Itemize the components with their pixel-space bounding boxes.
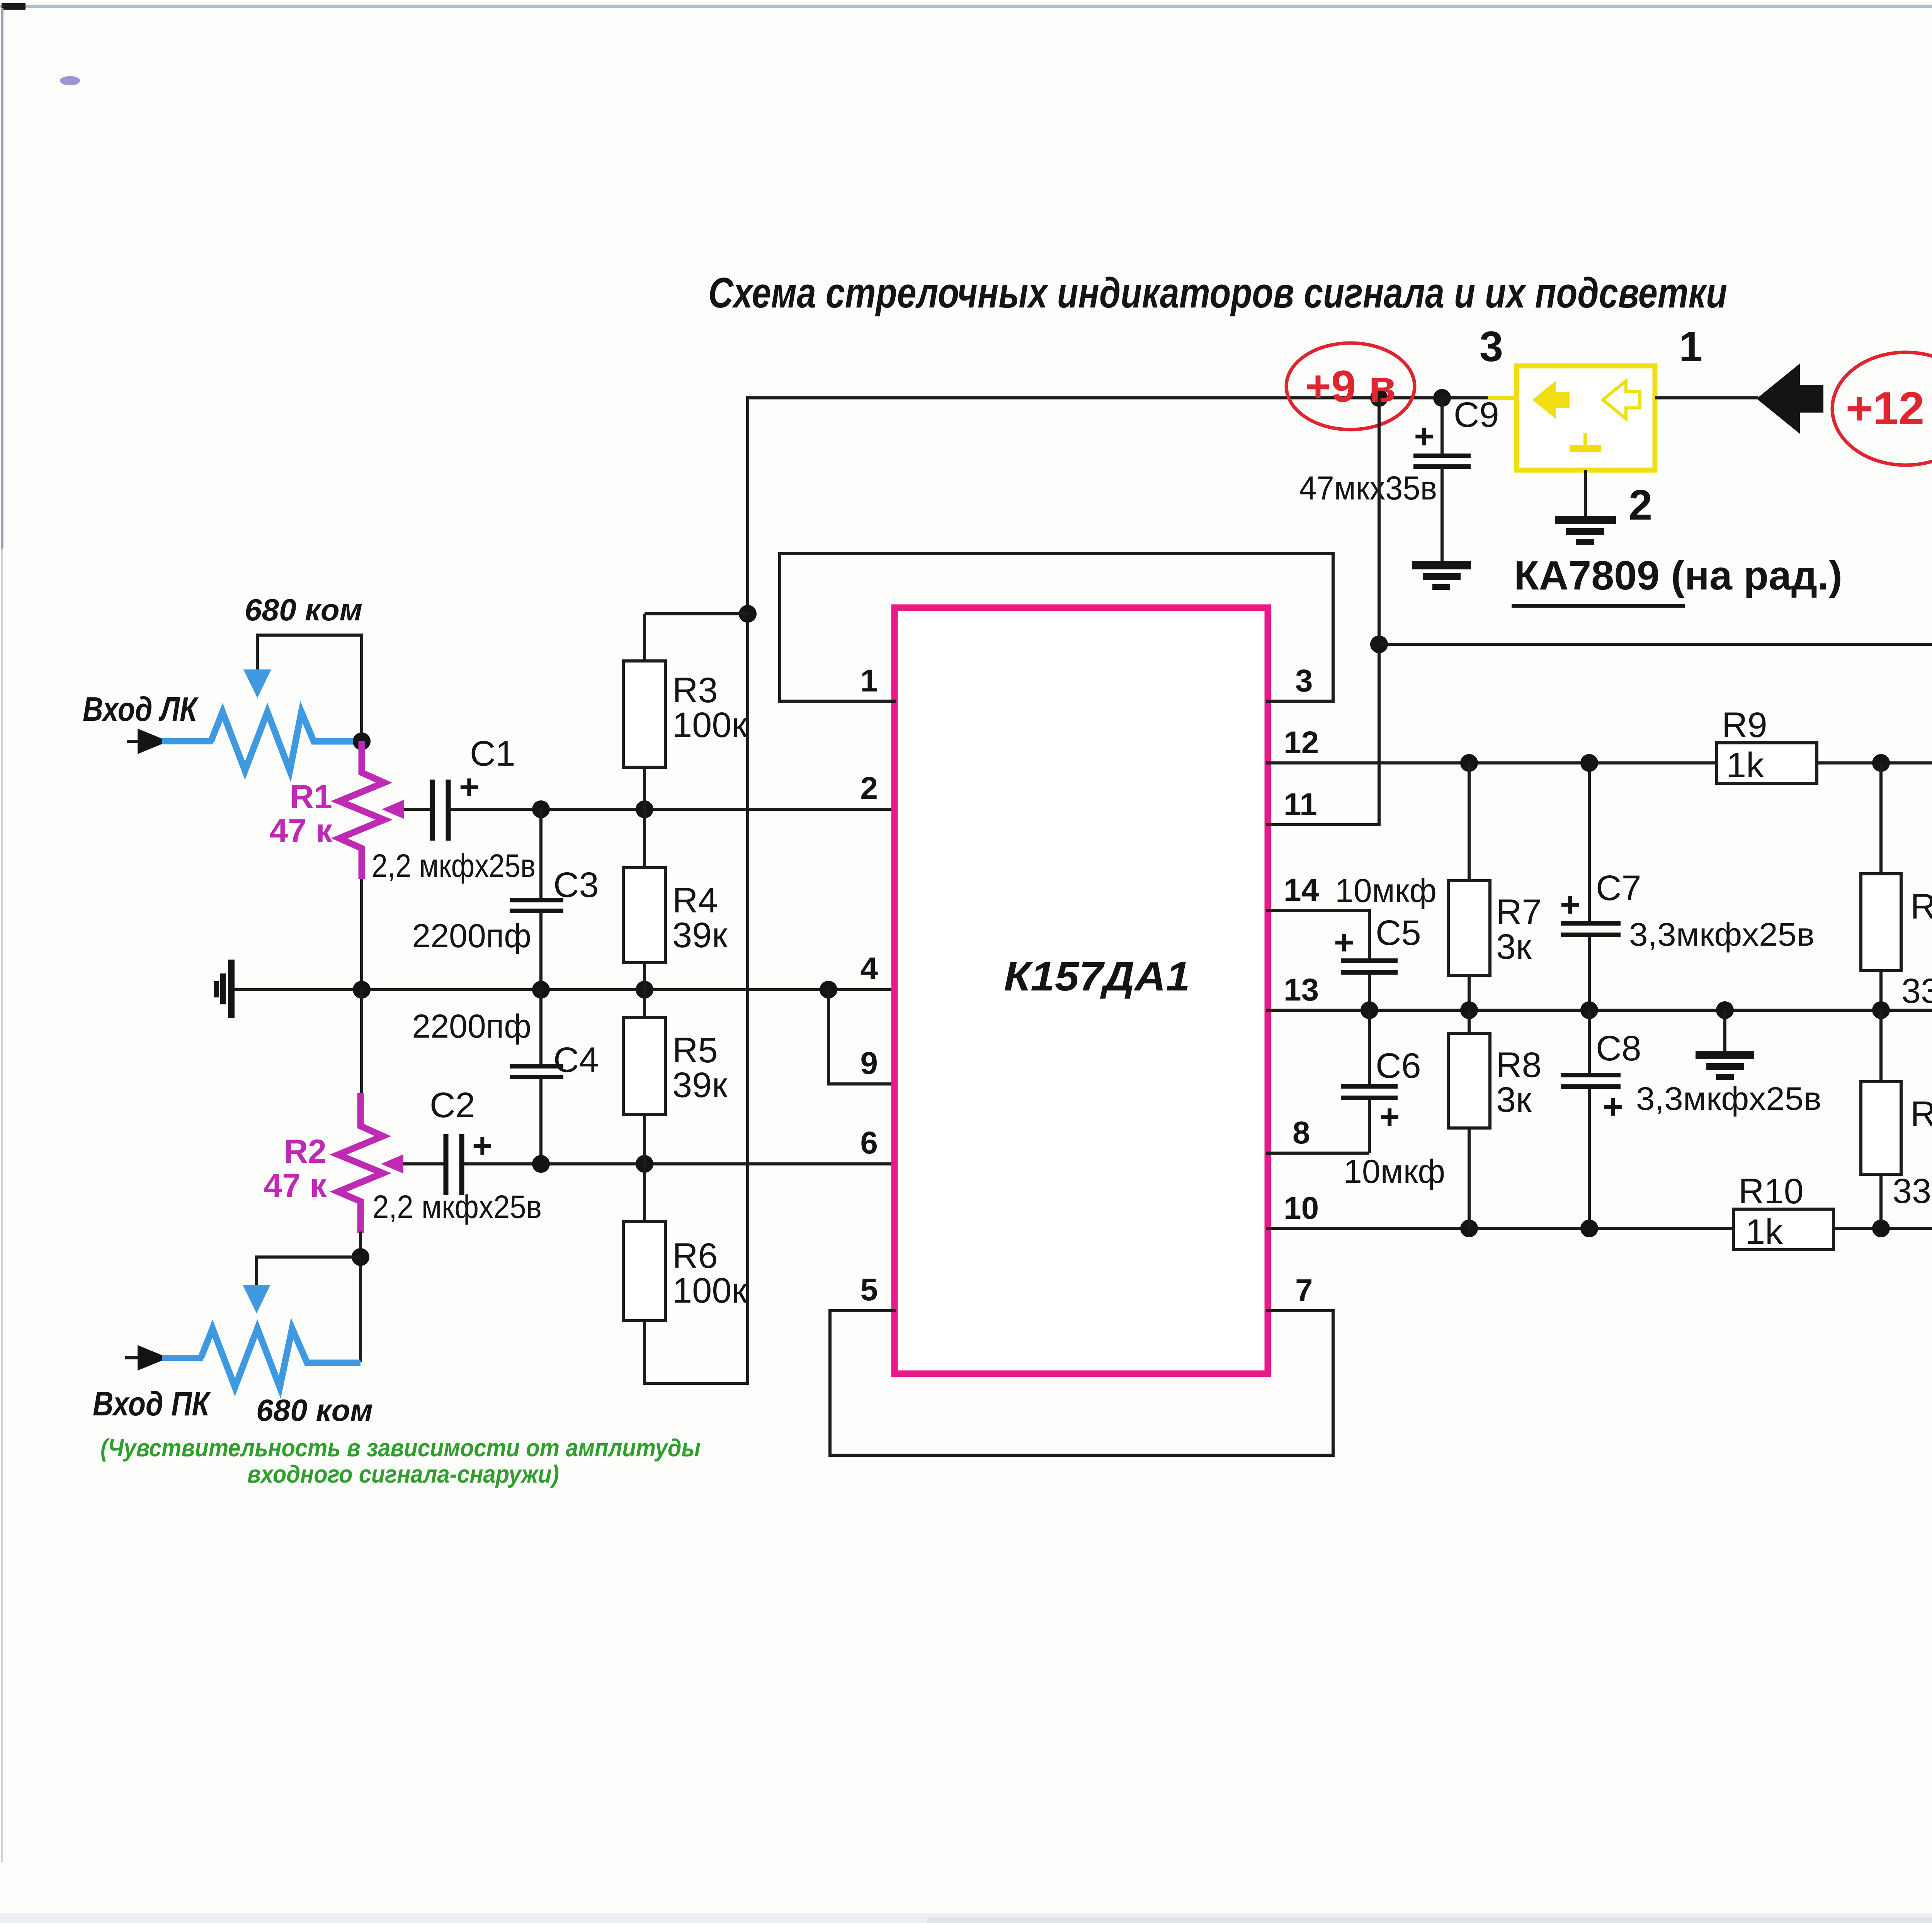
svg-text:+: +: [1603, 1087, 1623, 1126]
IC U1 K157DA1 body: [895, 608, 1268, 1374]
node C5 bottom: [1361, 1001, 1378, 1019]
node C4 bottom: [532, 1155, 550, 1173]
svg-text:39к: 39к: [672, 916, 728, 955]
svg-text:C8: C8: [1596, 1029, 1641, 1068]
ground on pin 13 row: [1723, 1010, 1726, 1052]
wire yellow stub to regulator pin 3: [1488, 396, 1517, 400]
ground below regulator: [1555, 516, 1616, 524]
capacitor C8: [1588, 1010, 1591, 1075]
svg-text:2: 2: [1629, 481, 1652, 529]
svg-text:10: 10: [1284, 1191, 1319, 1226]
svg-text:47 к: 47 к: [264, 1167, 327, 1204]
svg-text:+: +: [459, 768, 480, 807]
svg-text:330ом: 330ом: [1893, 1172, 1932, 1211]
node R8 bottom: [1460, 1220, 1478, 1237]
wire pin 6 row: [462, 1162, 896, 1165]
node input column ground: [353, 981, 371, 999]
wire ground row pin 4: [234, 988, 896, 991]
wire pin 10 row: [1266, 1227, 1932, 1230]
svg-text:Схема стрелочных индикаторов с: Схема стрелочных индикаторов сигнала и и…: [708, 269, 1727, 317]
svg-text:10мкф: 10мкф: [1344, 1153, 1445, 1190]
svg-text:C3: C3: [553, 865, 599, 905]
wire pin 8 stub: [1266, 1152, 1369, 1155]
wire R2 bottom: [359, 1232, 362, 1362]
pot LK adjust arrow: [243, 669, 271, 698]
node PK input: [352, 1248, 369, 1266]
svg-text:R2: R2: [284, 1133, 327, 1170]
node C3 top: [532, 800, 550, 818]
svg-text:12: 12: [1284, 725, 1319, 760]
wire R3 top stub: [645, 612, 748, 615]
potentiometer 680k PK blue zigzag: [201, 1328, 361, 1387]
node C7 top: [1580, 754, 1598, 772]
svg-text:R9: R9: [1722, 705, 1767, 745]
wire pin 9 branch: [828, 990, 896, 1084]
regulator yellow outlined arrow: [1603, 381, 1640, 419]
svg-text:1k: 1k: [1745, 1212, 1783, 1252]
svg-text:3к: 3к: [1496, 1080, 1532, 1119]
node wire-1670 junction: [1370, 635, 1388, 653]
svg-text:+: +: [1414, 417, 1434, 456]
svg-text:C9: C9: [1454, 395, 1499, 435]
svg-text:3,3мкфх25в: 3,3мкфх25в: [1636, 1080, 1821, 1117]
node ground stub pin13 row: [1716, 1001, 1734, 1019]
svg-text:К157ДА1: К157ДА1: [1004, 954, 1190, 999]
wire pin 2 row: [448, 808, 896, 811]
wire R11 stubs: [1879, 763, 1883, 874]
capacitor C2: [444, 1134, 449, 1195]
svg-text:3,3мкфх25в: 3,3мкфх25в: [1629, 916, 1815, 953]
wire regulator pin1 to +12 connector: [1655, 396, 1758, 399]
node C9 top junction: [1433, 389, 1451, 407]
wire pin 11 stub: [1266, 398, 1379, 825]
node R5 R6 junction: [636, 1155, 653, 1173]
svg-text:680 ком: 680 ком: [245, 593, 362, 627]
svg-text:2: 2: [860, 771, 878, 806]
svg-text:3: 3: [1480, 323, 1503, 370]
svg-text:C6: C6: [1376, 1046, 1421, 1086]
capacitor C9: [1440, 398, 1444, 454]
svg-text:R12: R12: [1910, 1094, 1932, 1134]
resistor R3: [643, 614, 646, 661]
svg-text:2,2 мкфх25в: 2,2 мкфх25в: [372, 1189, 542, 1225]
svg-text:3к: 3к: [1496, 927, 1532, 967]
svg-text:3: 3: [1295, 663, 1313, 698]
svg-text:R6: R6: [672, 1236, 718, 1276]
capacitor C3: [539, 809, 543, 900]
R2 wiper arrow: [390, 1162, 444, 1165]
resistor R7: [1448, 881, 1490, 975]
wire R7 stubs: [1468, 763, 1471, 881]
node LK input: [353, 732, 371, 750]
svg-text:+: +: [1334, 923, 1354, 962]
svg-text:R7: R7: [1496, 892, 1542, 932]
wire input PK with arrow: [125, 1356, 162, 1359]
node pin9 branch: [820, 981, 837, 999]
wire 1670 row to led rail: [1379, 643, 1932, 646]
svg-text:4: 4: [860, 951, 878, 986]
capacitor C5: [1341, 958, 1398, 963]
svg-text:680 ком: 680 ком: [256, 1393, 373, 1427]
svg-text:R1: R1: [290, 778, 332, 815]
svg-text:2200пф: 2200пф: [412, 917, 531, 955]
svg-text:+: +: [472, 1126, 493, 1165]
node R4 top: [636, 800, 653, 818]
wire bias chain vertical: [645, 398, 748, 1383]
wire pin 12 row: [1266, 761, 1932, 764]
+12v connector arrow: [1757, 364, 1823, 434]
capacitor C6: [1368, 1010, 1371, 1086]
scan border top: [0, 5, 1932, 8]
svg-text:C7: C7: [1596, 868, 1641, 908]
resistor R4: [643, 809, 646, 868]
resistor R6: [643, 1164, 646, 1221]
node C7 bottom: [1580, 1001, 1598, 1019]
regulator gnd pin symbol: [1583, 433, 1587, 446]
resistor R5: [643, 990, 646, 1018]
resistor R10: [1733, 1209, 1833, 1250]
wire pin 13 row: [1266, 1009, 1932, 1012]
wire R8 stubs: [1468, 1010, 1471, 1033]
resistor R8: [1448, 1033, 1490, 1128]
svg-text:C4: C4: [553, 1040, 599, 1080]
+12 в red ellipse label: [1832, 352, 1932, 465]
svg-text:R4: R4: [672, 881, 718, 920]
wire pins 1-3 top bracket: [780, 554, 1333, 701]
node R11 bottom: [1872, 1001, 1890, 1019]
wire input LK with arrow: [127, 740, 162, 743]
wire pins 5-7 bottom bracket: [830, 1311, 1333, 1455]
pot PK top bracket wire: [257, 1257, 361, 1287]
svg-text:КА7809 (на рад.): КА7809 (на рад.): [1514, 553, 1842, 598]
svg-text:входного сигнала-снаружи): входного сигнала-снаружи): [247, 1460, 559, 1488]
svg-text:100к: 100к: [672, 1271, 747, 1310]
svg-text:7: 7: [1295, 1273, 1313, 1308]
node R7 top: [1460, 754, 1478, 772]
potentiometer R2 47k magenta: [338, 1093, 383, 1233]
wire regulator pin 2 to ground: [1584, 470, 1587, 516]
svg-text:1: 1: [1679, 323, 1702, 370]
regulator U1 KA7809 yellow box: [1517, 366, 1655, 470]
svg-text:9: 9: [860, 1046, 878, 1081]
svg-text:39к: 39к: [672, 1065, 728, 1105]
svg-text:10мкф: 10мкф: [1335, 872, 1437, 909]
svg-text:+: +: [1379, 1098, 1400, 1136]
regulator yellow filled arrow: [1532, 381, 1570, 419]
svg-text:100к: 100к: [672, 705, 747, 745]
node +9v junction: [1370, 389, 1388, 407]
svg-text:47мкх35в: 47мкх35в: [1299, 470, 1437, 507]
capacitor C7: [1588, 763, 1591, 923]
pot LK top bracket wire: [257, 635, 362, 741]
svg-text:C1: C1: [470, 734, 515, 773]
node R11 top: [1872, 754, 1890, 772]
resistor R11: [1861, 874, 1901, 971]
node R7 bottom: [1460, 1001, 1478, 1019]
svg-text:2,2 мкфх25в: 2,2 мкфх25в: [372, 848, 536, 884]
ground symbol left: [228, 960, 235, 1018]
potentiometer 680k LK blue zigzag: [211, 712, 362, 771]
svg-text:R3: R3: [672, 671, 718, 710]
node R12 bottom: [1872, 1220, 1890, 1237]
potentiometer R1 47k magenta: [339, 741, 384, 879]
svg-text:R11: R11: [1910, 887, 1932, 926]
svg-text:6: 6: [860, 1125, 878, 1160]
svg-text:14: 14: [1284, 873, 1319, 908]
resistor R9: [1717, 743, 1817, 783]
svg-text:C2: C2: [430, 1086, 475, 1125]
scan ink speck: [60, 76, 80, 85]
svg-text:330ом: 330ом: [1901, 972, 1932, 1011]
svg-text:C5: C5: [1376, 913, 1421, 953]
node R3 top junction: [739, 605, 757, 623]
capacitor C4: [539, 990, 543, 1066]
scan border bottom: [0, 1913, 1932, 1923]
svg-text:+9 в: +9 в: [1305, 361, 1396, 411]
svg-text:Вход ПК: Вход ПК: [93, 1384, 211, 1423]
ground below C9: [1412, 561, 1471, 569]
wire R12 stubs: [1879, 1010, 1883, 1082]
svg-text:47 к: 47 к: [269, 812, 333, 849]
R1 wiper arrow: [390, 808, 430, 811]
svg-text:8: 8: [1293, 1115, 1310, 1150]
svg-text:Вход ЛК: Вход ЛК: [83, 690, 199, 728]
svg-text:(Чувствительность в зависимост: (Чувствительность в зависимости от ампли…: [100, 1434, 701, 1462]
svg-text:R10: R10: [1738, 1172, 1804, 1211]
node C8 bottom: [1580, 1220, 1598, 1237]
pot PK adjust arrow: [243, 1285, 270, 1313]
wire pin 14 stub: [1266, 911, 1369, 961]
svg-text:R5: R5: [672, 1031, 718, 1070]
+9 в red ellipse label: [1286, 343, 1415, 430]
svg-text:1: 1: [860, 663, 878, 698]
svg-text:+12 в: +12 в: [1846, 382, 1932, 434]
capacitor C1: [430, 780, 435, 841]
wire R2 top from ground row: [360, 990, 363, 1095]
svg-text:13: 13: [1284, 972, 1319, 1007]
wire +9v top rail: [748, 398, 1490, 614]
resistor R12: [1861, 1082, 1901, 1174]
svg-text:+: +: [1560, 885, 1580, 924]
svg-text:1k: 1k: [1726, 746, 1764, 785]
node R4 R5 junction: [636, 981, 653, 999]
svg-text:11: 11: [1284, 787, 1317, 822]
scan border left: [1, 8, 3, 549]
node C3 C4 column ground: [532, 981, 550, 999]
svg-text:2200пф: 2200пф: [412, 1008, 531, 1045]
svg-text:R8: R8: [1496, 1045, 1542, 1085]
wire R1 bottom to ground row: [360, 879, 363, 990]
svg-text:5: 5: [860, 1272, 878, 1307]
